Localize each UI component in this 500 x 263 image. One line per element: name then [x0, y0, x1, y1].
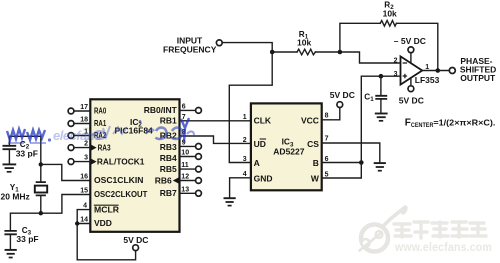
- wire W up to op-amp noninverting input: [322, 76, 401, 178]
- wire CS to ground: [322, 143, 380, 163]
- terminal -5V DC: [410, 53, 412, 63]
- svg-text:13: 13: [181, 186, 189, 193]
- svg-text:18: 18: [80, 117, 88, 124]
- svg-text:2: 2: [243, 137, 247, 144]
- svg-text:AD5227: AD5227: [273, 147, 304, 157]
- digital potentiometer IC3 AD5227 body: [251, 103, 322, 190]
- svg-text:B: B: [313, 158, 319, 168]
- svg-text:RB4: RB4: [160, 153, 177, 163]
- wire VDD to 5V DC: [77, 224, 135, 260]
- microcontroller IC2 PIC16F84 body: [90, 99, 179, 232]
- svg-text:10k: 10k: [383, 8, 397, 18]
- svg-text:elecfans: elecfans: [53, 128, 101, 143]
- svg-text:RB3: RB3: [160, 142, 177, 152]
- svg-text:8: 8: [325, 112, 329, 119]
- wire R1 to op-amp inverting input: [315, 52, 400, 63]
- ground (AD5227 GND): [224, 197, 236, 199]
- svg-text:RB0/INT: RB0/INT: [144, 105, 178, 115]
- node C1 junction: [379, 74, 384, 79]
- terminal 5V DC (AD5227 supply): [337, 102, 343, 108]
- capacitor C3: [4, 231, 16, 234]
- capacitor C2: [3, 146, 17, 149]
- capacitor C1: [375, 96, 387, 99]
- ground (CS): [374, 162, 386, 164]
- wire VCC to 5V DC: [322, 108, 340, 120]
- svg-text:6: 6: [182, 103, 186, 110]
- svg-text:RAL/TOCK1: RAL/TOCK1: [97, 156, 145, 166]
- svg-text:CLK: CLK: [254, 116, 272, 126]
- pin 1 RA2: [74, 135, 90, 137]
- svg-text:33 pF: 33 pF: [16, 148, 38, 158]
- svg-text:OSC1CLKIN: OSC1CLKIN: [94, 175, 143, 185]
- svg-text:OUTPUT: OUTPUT: [460, 73, 496, 83]
- svg-text:12: 12: [181, 174, 189, 181]
- svg-text:RB6: RB6: [155, 175, 172, 185]
- svg-text:17: 17: [80, 104, 88, 111]
- wire C1 stub: [380, 76, 382, 95]
- op-amp U1 LF353: [401, 56, 423, 84]
- wire OSC1CLKIN: [41, 164, 90, 180]
- svg-text:5V DC: 5V DC: [123, 235, 148, 245]
- svg-text:– 5V DC: – 5V DC: [394, 36, 426, 46]
- node output junction: [436, 68, 441, 73]
- svg-text:UD: UD: [254, 139, 266, 149]
- wire R2 to output node: [396, 23, 437, 70]
- resistor R2: [380, 21, 396, 27]
- terminal 5V DC (PIC supply): [133, 245, 139, 251]
- ground (C3): [5, 249, 17, 251]
- node crystal-OSC2 junction: [39, 211, 43, 215]
- terminal INPUT FREQUENCY: [216, 40, 222, 46]
- svg-text:VCC: VCC: [301, 116, 319, 126]
- svg-text:7: 7: [325, 136, 329, 143]
- node input junction: [270, 50, 275, 55]
- node MCLR-VDD junction: [75, 221, 79, 225]
- crystal Y1: [36, 182, 46, 195]
- pin 9 RB3: [180, 145, 196, 147]
- svg-text:33 pF: 33 pF: [16, 234, 38, 244]
- svg-text:1: 1: [243, 114, 247, 121]
- wire crystal vertical bottom: [40, 196, 42, 214]
- svg-text:20 MHz: 20 MHz: [1, 192, 30, 202]
- svg-text:10: 10: [181, 150, 189, 157]
- pin 12 RB6: [180, 180, 196, 182]
- svg-text:RA0: RA0: [94, 106, 106, 116]
- pin 11 RB5: [180, 168, 196, 170]
- pin 13 RB7: [180, 192, 196, 194]
- wire GND pin to ground: [230, 178, 251, 198]
- wire op-amp output: [422, 70, 449, 72]
- svg-text:FREQUENCY: FREQUENCY: [163, 45, 217, 55]
- svg-text:2: 2: [394, 58, 398, 65]
- svg-text:www.elecfans.com: www.elecfans.com: [394, 242, 492, 254]
- wire input branch to AD5227 A: [229, 52, 272, 163]
- ground (C1): [375, 113, 388, 115]
- svg-text:VDD: VDD: [94, 218, 112, 228]
- wire B to wiper node: [322, 162, 362, 164]
- svg-text:3: 3: [243, 156, 247, 163]
- svg-text:5V DC: 5V DC: [330, 90, 355, 100]
- svg-text:4: 4: [83, 203, 87, 210]
- svg-text:RB5: RB5: [160, 164, 177, 174]
- svg-text:4: 4: [243, 171, 247, 178]
- svg-text:16: 16: [80, 174, 88, 181]
- pin 10 RB4: [180, 156, 196, 158]
- svg-text:LF353: LF353: [415, 75, 440, 85]
- wire feedback riser: [340, 23, 380, 52]
- svg-text:15: 15: [80, 188, 88, 195]
- svg-text:CS: CS: [307, 139, 319, 149]
- svg-text:RA3: RA3: [98, 142, 111, 152]
- svg-text:OSC2CLKOUT: OSC2CLKOUT: [94, 189, 148, 199]
- svg-text:3: 3: [84, 155, 88, 162]
- terminal PHASE-SHIFTED OUTPUT: [449, 68, 455, 74]
- terminal 5V DC (op-amp): [410, 78, 412, 86]
- svg-text:W: W: [311, 173, 320, 183]
- node B-W junction: [359, 160, 364, 165]
- wire input to R1: [222, 43, 272, 52]
- resistor R1: [297, 49, 315, 55]
- svg-text:10k: 10k: [297, 38, 311, 48]
- wire RB1 to CLK: [180, 120, 251, 122]
- svg-text:MCLR: MCLR: [94, 204, 119, 214]
- pin 6 RB0/INT: [180, 109, 196, 111]
- wire MCLR to VDD: [77, 210, 90, 224]
- wire OSC2CLKOUT to C3: [10, 195, 90, 231]
- node crystal-OSC1 junction: [39, 162, 43, 166]
- svg-text:RB1: RB1: [160, 116, 177, 126]
- svg-text:5V DC: 5V DC: [399, 95, 424, 105]
- svg-text:GND: GND: [254, 173, 273, 183]
- svg-text:RA1: RA1: [94, 118, 106, 128]
- pin 18 RA1: [74, 123, 90, 125]
- svg-text:RB7: RB7: [160, 188, 177, 198]
- pin 2 RA3: [74, 147, 90, 149]
- svg-text:14: 14: [80, 216, 88, 223]
- svg-text:11: 11: [181, 162, 189, 169]
- svg-text:3: 3: [394, 71, 398, 78]
- svg-text:A: A: [254, 158, 260, 168]
- node R1-feedback junction: [338, 50, 343, 55]
- wire RB2 to U/D: [180, 136, 251, 143]
- wire C2 top to crystal node: [9, 136, 40, 145]
- ground (C2): [3, 163, 17, 165]
- wire crystal vertical top: [40, 136, 42, 182]
- pin 17 RA0: [74, 110, 90, 112]
- pin 3 RAL/TOCK1: [74, 161, 90, 163]
